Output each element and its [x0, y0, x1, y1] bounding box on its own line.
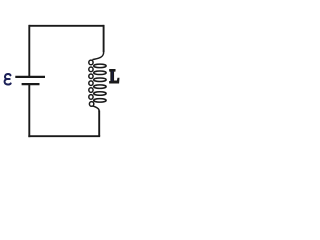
inductor L1 turn oval 6 — [94, 99, 106, 103]
inductor L1 left loop 5 — [89, 88, 93, 93]
circuit schematic: battery eps with inductor L — [0, 0, 131, 186]
inductor L1 coil hook (entry) — [92, 52, 103, 60]
inductor L1 left loop 1 — [89, 60, 93, 65]
wire left upper — [28, 25, 30, 77]
inductor L1 turn oval 2 — [94, 71, 106, 75]
svg-text:L: L — [110, 66, 120, 87]
inductor L1 left loop 4 — [89, 81, 93, 86]
inductor L1 left loop 2 — [89, 67, 93, 72]
inductor L1 left loop 3 — [89, 74, 93, 79]
wire right upper — [103, 25, 105, 52]
battery B1 long plate (positive) — [15, 76, 45, 78]
inductor L1 tail (exit) — [93, 106, 99, 112]
inductor L1 left loop 7 — [89, 102, 93, 107]
inductor L1 turn oval 5 — [94, 92, 106, 96]
wire top — [29, 25, 103, 27]
wire bottom — [28, 135, 100, 137]
wire left lower — [28, 84, 30, 137]
inductor L1 turn oval 3 — [94, 78, 106, 82]
inductor L1 left loop 6 — [89, 95, 93, 100]
wire right lower — [98, 111, 100, 137]
battery B1 short plate (negative) — [22, 83, 40, 85]
inductor L1 turn oval 4 — [94, 85, 106, 89]
label epsilon (EMF) — [5, 74, 11, 85]
inductor L1 turn oval 1 — [94, 64, 106, 68]
